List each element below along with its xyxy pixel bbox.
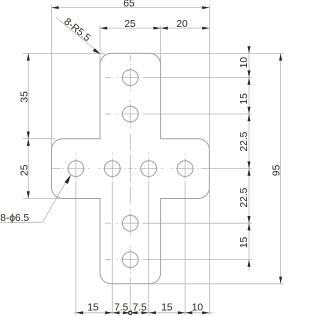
svg-text:8-ϕ6.5: 8-ϕ6.5 — [0, 213, 29, 224]
svg-text:65: 65 — [123, 0, 135, 10]
svg-text:10: 10 — [192, 303, 204, 314]
svg-text:25: 25 — [124, 19, 136, 30]
svg-text:7.5: 7.5 — [114, 303, 128, 314]
svg-text:15: 15 — [87, 303, 99, 314]
svg-text:15: 15 — [239, 93, 250, 105]
svg-text:22.5: 22.5 — [239, 131, 250, 151]
svg-text:8-R5.5: 8-R5.5 — [62, 16, 93, 44]
svg-text:25: 25 — [20, 164, 31, 176]
svg-text:15: 15 — [239, 237, 250, 249]
svg-text:20: 20 — [176, 19, 188, 30]
svg-text:22.5: 22.5 — [239, 187, 250, 207]
svg-text:15: 15 — [161, 303, 173, 314]
svg-text:35: 35 — [20, 91, 31, 103]
svg-text:10: 10 — [239, 57, 250, 69]
svg-text:7.5: 7.5 — [133, 303, 147, 314]
svg-text:95: 95 — [271, 164, 282, 176]
